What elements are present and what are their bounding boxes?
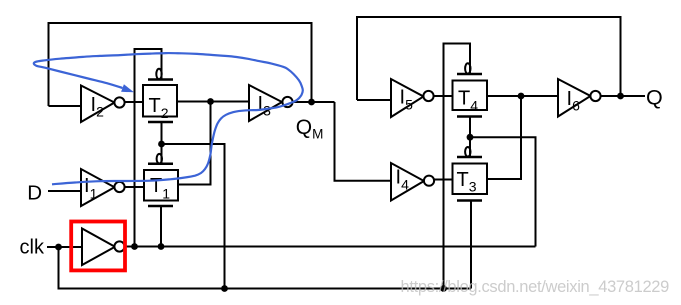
transmission gate T2	[143, 69, 177, 122]
inverter I6	[558, 79, 601, 117]
wire T1 output up to node QM rail	[178, 102, 211, 185]
transmission gate T4	[453, 63, 488, 116]
wire slave feedback loop Q to I5 input	[357, 17, 621, 100]
wire I3 output to QM corner	[293, 101, 335, 103]
wire I6 output to Q	[601, 95, 646, 97]
node T4out/T3out junction	[518, 93, 525, 100]
node clkbar/T1 gate junction	[158, 243, 165, 250]
wire D input	[48, 190, 81, 192]
wire I2 input	[49, 105, 82, 107]
svg-text:Q: Q	[646, 86, 663, 110]
svg-text:https://blog.csdn.net/weixin_4: https://blog.csdn.net/weixin_43781229	[401, 278, 670, 296]
wire T2/T1 middle gate stem	[161, 122, 163, 164]
transmission gate T1	[144, 154, 178, 206]
node clk input junction	[55, 244, 62, 251]
red highlight box around clk inverter	[71, 222, 125, 271]
inverter I3	[249, 85, 293, 121]
node clk rail / gate branch junction	[221, 285, 228, 292]
wire I5 output to T4 input	[434, 95, 453, 97]
node clkbar/T2loop junction	[131, 243, 138, 250]
wire T4 clk loop over top	[444, 44, 471, 289]
blue annotation curve	[34, 53, 303, 184]
wire QM down to I4 input	[335, 102, 392, 181]
node T4/T3 gate clkbar node	[467, 134, 474, 141]
wire gate node to clk vertical	[162, 144, 225, 289]
svg-text:clk: clk	[20, 237, 45, 259]
wire T2 output to I3 input	[177, 101, 249, 103]
node T1/T2 gate clk node	[158, 141, 165, 148]
wire clk rail bottom	[59, 247, 472, 289]
inverter I1	[81, 169, 125, 206]
wire T1 bottom gate to clkbar rail	[160, 206, 162, 247]
wire master feedback loop I3 output to I2 input	[49, 23, 312, 106]
wire T4 output to I6 input	[487, 95, 558, 97]
node QM feedback junction	[308, 99, 315, 106]
node clk rail / T4 loop junction	[440, 285, 447, 292]
wire T3 bottom gate to clk rail end	[470, 201, 472, 289]
wire T4/T3 middle gate stem	[469, 117, 471, 158]
wire clkbar rail	[125, 246, 536, 248]
node Q feedback junction	[617, 93, 624, 100]
wire I2 output to T2 input	[125, 101, 144, 103]
svg-text:D: D	[27, 182, 42, 205]
inverter I4	[391, 163, 434, 201]
blue arrowhead	[121, 84, 134, 92]
wire I1 output to T1 input	[125, 186, 145, 188]
inverter I2	[81, 86, 125, 123]
transmission gate T3	[453, 147, 488, 201]
wire T2 clk-bar loop over top	[135, 49, 162, 247]
wire I4 output to T3 input	[434, 179, 453, 181]
wire T3 output up to slave rail	[487, 96, 521, 179]
wire clk input	[47, 246, 82, 248]
clk inverter (unlabeled)	[82, 229, 125, 266]
wire I5 input stub	[357, 99, 391, 101]
wire gate node to clkbar rail end	[470, 137, 536, 246]
node T2out/T1out junction	[207, 98, 214, 105]
inverter I5	[391, 79, 434, 117]
